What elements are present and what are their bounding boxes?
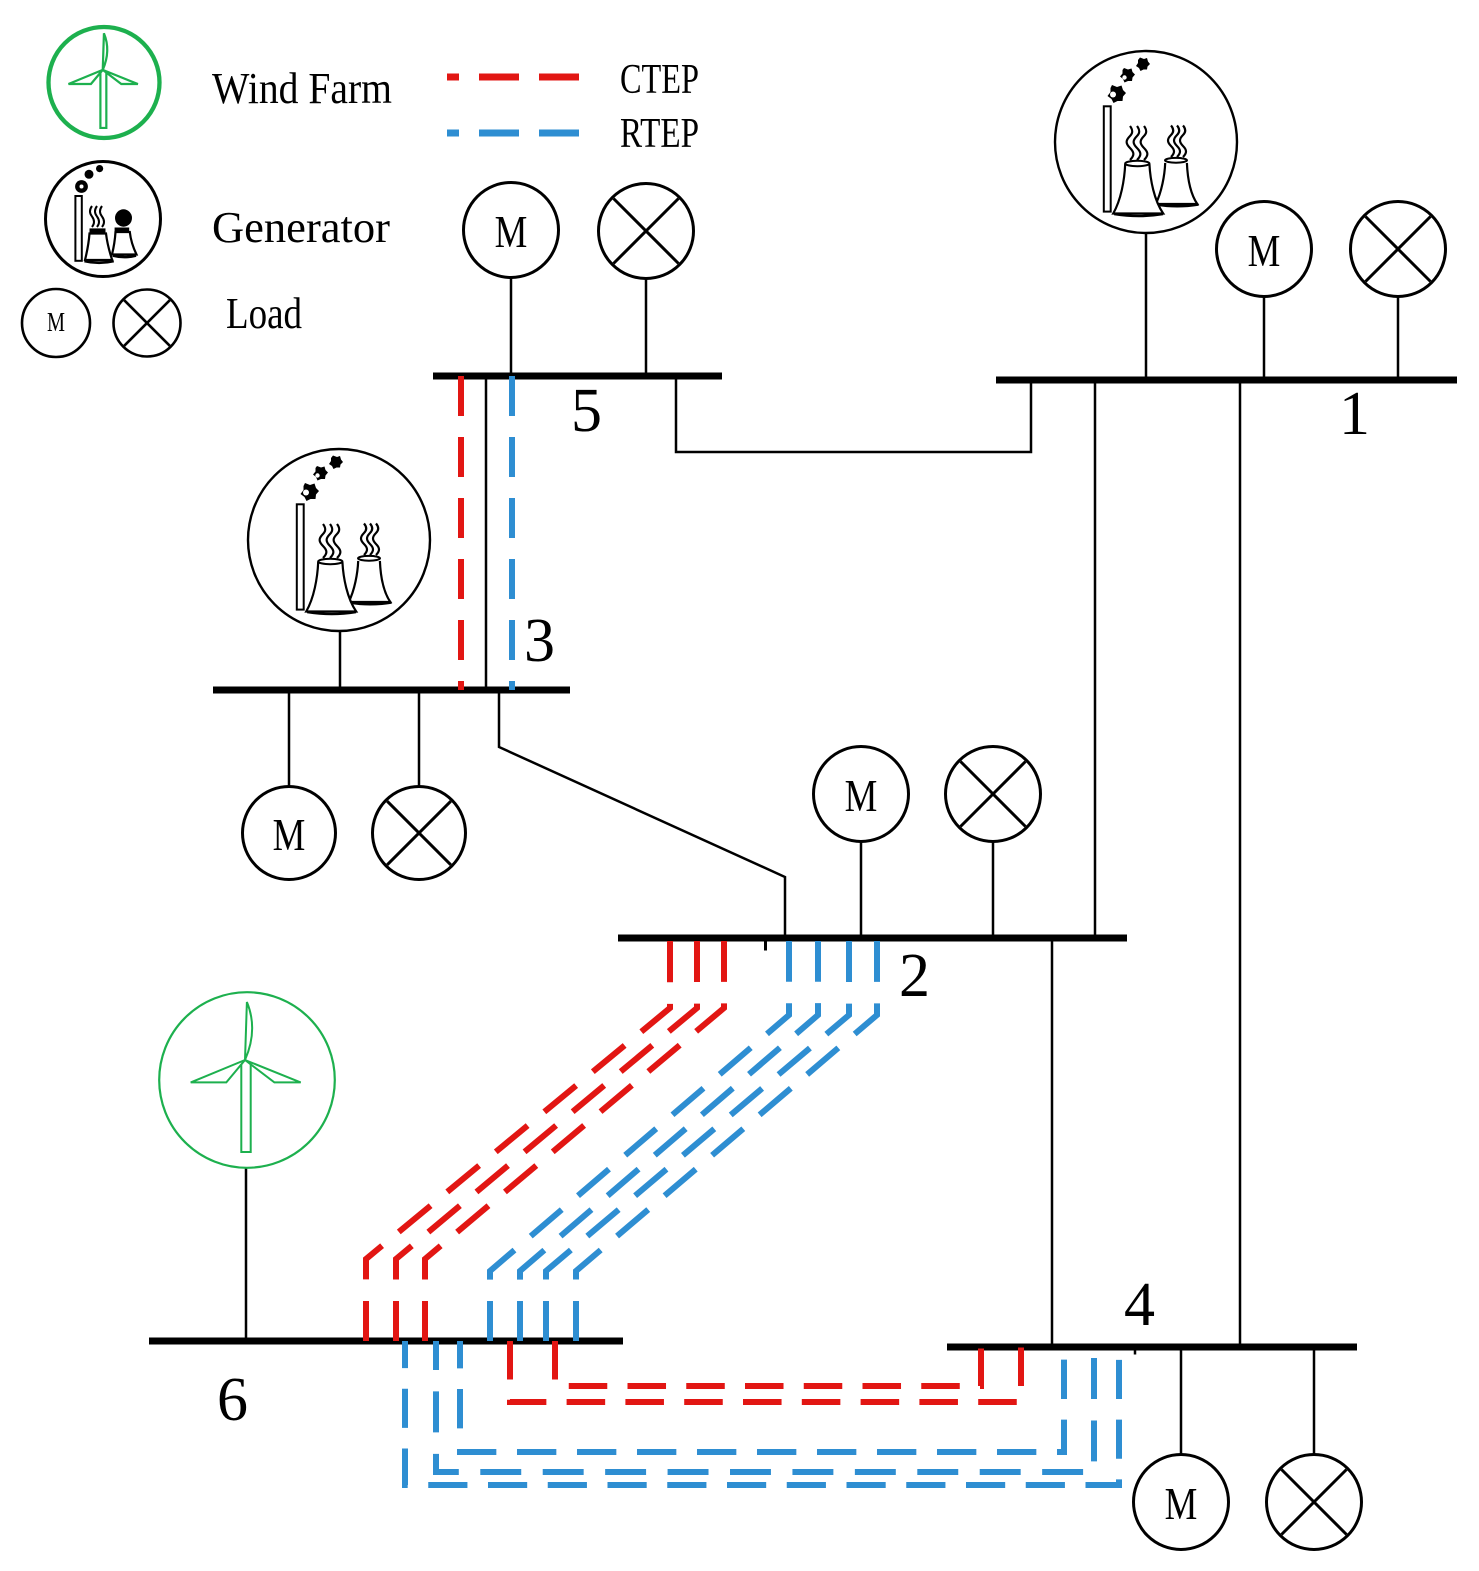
svg-text:M: M: [47, 308, 65, 337]
svg-text:Load: Load: [226, 289, 302, 338]
svg-text:M: M: [273, 810, 306, 861]
svg-text:CTEP: CTEP: [620, 57, 699, 103]
svg-text:M: M: [845, 771, 878, 822]
svg-text:3: 3: [524, 607, 555, 675]
svg-text:6: 6: [217, 1366, 248, 1434]
svg-text:Generator: Generator: [212, 203, 390, 252]
svg-text:M: M: [1165, 1479, 1198, 1530]
svg-text:M: M: [1248, 226, 1281, 277]
svg-text:4: 4: [1124, 1271, 1155, 1339]
svg-text:Wind Farm: Wind Farm: [212, 64, 392, 113]
svg-text:M: M: [495, 207, 528, 258]
svg-text:RTEP: RTEP: [620, 111, 699, 157]
svg-text:1: 1: [1339, 380, 1370, 448]
svg-text:2: 2: [899, 942, 930, 1010]
svg-text:5: 5: [571, 377, 602, 445]
